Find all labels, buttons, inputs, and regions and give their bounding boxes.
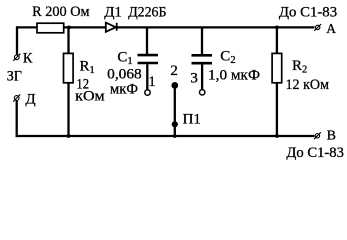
svg-text:П1: П1 [183, 112, 201, 128]
svg-text:Д1: Д1 [104, 5, 122, 21]
svg-text:12 кОм: 12 кОм [286, 77, 330, 93]
svg-text:кОм: кОм [75, 88, 105, 104]
svg-text:3: 3 [190, 70, 198, 86]
svg-text:До С1-83: До С1-83 [286, 145, 344, 161]
svg-text:ЗГ: ЗГ [7, 69, 23, 85]
svg-text:2: 2 [170, 63, 178, 79]
svg-text:В: В [327, 129, 336, 144]
svg-text:R 200 Ом: R 200 Ом [32, 4, 90, 20]
svg-text:К: К [23, 51, 33, 67]
svg-text:До С1-83: До С1-83 [279, 4, 337, 20]
svg-text:А: А [326, 21, 336, 36]
svg-text:1: 1 [148, 74, 156, 90]
svg-text:0,068: 0,068 [107, 67, 142, 83]
svg-text:мкФ: мкФ [110, 81, 138, 97]
svg-text:Д: Д [25, 91, 35, 107]
svg-text:1,0 мкФ: 1,0 мкФ [208, 67, 260, 83]
svg-text:Д226Б: Д226Б [128, 5, 166, 21]
